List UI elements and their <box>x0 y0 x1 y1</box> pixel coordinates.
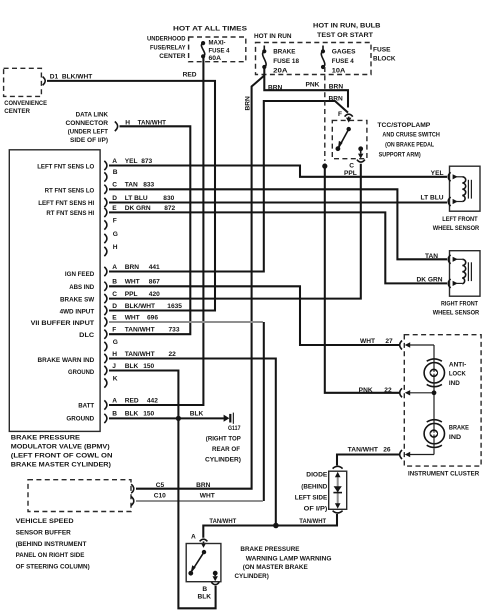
left front wheel sensor caption <box>433 216 480 232</box>
pin C PPL 420 labels <box>112 291 160 298</box>
pin J BLK 150 labels <box>112 363 154 370</box>
wire J BLK 150 riser down to ground run and brake switch <box>109 371 216 609</box>
svg-text:WHT: WHT <box>360 338 375 345</box>
svg-text:442: 442 <box>147 397 158 404</box>
svg-text:FUSE 4: FUSE 4 <box>332 58 354 65</box>
svg-text:DIODE: DIODE <box>306 471 328 478</box>
wire WHT 696 (gray run) <box>109 321 263 323</box>
svg-text:27: 27 <box>385 338 393 345</box>
svg-text:E: E <box>112 314 117 321</box>
wire TAN/WHT 26 from cluster to diode <box>337 455 400 466</box>
svg-text:ANTI-: ANTI- <box>449 361 466 368</box>
svg-text:BRN: BRN <box>329 84 344 91</box>
right front wheel sensor caption <box>433 301 480 317</box>
lamp ANTI-LOCK IND label <box>449 361 466 387</box>
wire label TAN <box>425 253 438 260</box>
wire label YEL <box>431 170 444 177</box>
pin F letter <box>113 217 117 224</box>
svg-text:B: B <box>202 586 207 593</box>
svg-text:BRAKE: BRAKE <box>449 425 470 432</box>
wire C10 WHT (gray run) <box>136 500 263 502</box>
diode connector arc bottom <box>333 511 343 513</box>
left front wheel sensor box <box>450 166 481 211</box>
svg-text:TAN/WHT: TAN/WHT <box>299 518 326 525</box>
svg-text:RIGHT FRONT: RIGHT FRONT <box>441 301 478 308</box>
wire label TAN/WHT 26 <box>348 447 391 454</box>
svg-text:BATT: BATT <box>78 403 94 410</box>
instrument cluster caption <box>408 471 479 478</box>
svg-text:BLK: BLK <box>198 593 212 600</box>
underhood fuse center dashed box <box>189 37 246 62</box>
svg-text:420: 420 <box>149 291 160 298</box>
BPMV module box <box>9 150 100 432</box>
svg-text:D1: D1 <box>50 73 59 80</box>
wire D1 BLK/WHT from convenience center to pin D (4WD INPUT) <box>47 73 215 310</box>
svg-text:BLK: BLK <box>125 363 139 370</box>
svg-text:696: 696 <box>147 314 158 321</box>
wire label BRN (right lower) <box>329 95 344 102</box>
pin K letter <box>113 375 118 382</box>
svg-text:INSTRUMENT CLUSTER: INSTRUMENT CLUSTER <box>408 471 479 478</box>
svg-text:SUPPORT ARM): SUPPORT ARM) <box>379 151 421 158</box>
svg-text:REAR OF: REAR OF <box>212 446 240 453</box>
wire YEL 873 to left front wheel sensor <box>109 166 447 177</box>
junction splice on PNK inside cluster <box>432 390 437 395</box>
fuse BRAKE FUSE 18 20A <box>262 46 299 75</box>
svg-text:GROUND: GROUND <box>68 369 94 376</box>
wire TAN/WHT 22 riser to bottom junction <box>109 359 276 525</box>
svg-text:BRN: BRN <box>125 264 140 271</box>
instrument cluster dashed box <box>404 335 481 466</box>
svg-text:OF STEERING COLUMN): OF STEERING COLUMN) <box>16 563 90 570</box>
svg-text:BRN: BRN <box>268 84 283 91</box>
svg-text:TAN: TAN <box>125 182 138 189</box>
wire PPL 420 from TCC switch pin C to BPMV pin C (BRAKE SW) <box>109 164 361 299</box>
svg-text:HOT IN RUN: HOT IN RUN <box>254 33 292 40</box>
svg-text:WHEEL SENSOR: WHEEL SENSOR <box>433 225 480 232</box>
VSS buffer caption <box>16 518 90 570</box>
junction splice TAN/WHT <box>273 523 279 529</box>
svg-text:FUSE: FUSE <box>373 47 391 54</box>
svg-text:FUSE 18: FUSE 18 <box>273 58 299 65</box>
svg-text:J: J <box>112 363 116 370</box>
RF sensor TAN connector arc and arrow <box>448 255 462 264</box>
svg-text:A: A <box>112 397 117 404</box>
wire label TAN/WHT (right) <box>299 518 326 525</box>
wire TAN 833 to right front wheel sensor <box>109 189 447 259</box>
RF sensor DK GRN connector arc and arrow <box>448 279 462 288</box>
diode symbol <box>333 486 342 492</box>
cluster connector arc and arrow (PNK 22) <box>400 388 434 397</box>
svg-text:RT FNT SENS LO: RT FNT SENS LO <box>45 187 94 194</box>
svg-text:WHT: WHT <box>125 314 140 321</box>
junction splice on PNK <box>322 164 327 169</box>
svg-text:TAN/WHT: TAN/WHT <box>125 327 155 334</box>
wire label PNK <box>306 81 320 88</box>
svg-text:150: 150 <box>143 363 154 370</box>
svg-text:1635: 1635 <box>167 303 182 310</box>
BPMV caption <box>11 435 113 469</box>
brake switch caption <box>235 546 332 580</box>
wire label BRN (right upper) <box>329 84 344 91</box>
svg-text:733: 733 <box>169 327 180 334</box>
LF sensor LT BLU connector arc and arrow <box>448 197 462 206</box>
diode internal wire and arrows <box>335 472 341 509</box>
svg-text:C: C <box>349 163 354 170</box>
svg-text:G: G <box>113 339 118 346</box>
pin E WHT 696 labels <box>112 314 158 321</box>
svg-text:YEL: YEL <box>125 158 138 165</box>
svg-text:CYLINDER): CYLINDER) <box>235 573 269 580</box>
svg-text:(BEHIND: (BEHIND <box>301 483 327 490</box>
svg-text:867: 867 <box>149 279 160 286</box>
svg-text:A: A <box>112 264 117 271</box>
fuse MAXI-FUSE 4 60A <box>201 40 230 63</box>
svg-text:BRAKE WARN IND: BRAKE WARN IND <box>38 357 95 364</box>
svg-text:LEFT FNT SENS HI: LEFT FNT SENS HI <box>38 200 94 207</box>
svg-text:DK GRN: DK GRN <box>125 205 151 212</box>
svg-text:D: D <box>112 303 117 310</box>
svg-text:(LEFT FRONT OF COWL ON: (LEFT FRONT OF COWL ON <box>11 453 113 460</box>
svg-text:AND CRUISE SWITCH: AND CRUISE SWITCH <box>382 132 440 139</box>
svg-text:LT BLU: LT BLU <box>125 195 148 202</box>
svg-text:MAXI-: MAXI- <box>209 40 226 47</box>
TCC switch label <box>377 122 440 159</box>
cluster internal wire vertical <box>433 345 435 455</box>
svg-text:MODULATOR VALVE (BPMV): MODULATOR VALVE (BPMV) <box>11 444 110 451</box>
pin C10 connector arc <box>131 497 134 506</box>
svg-text:F: F <box>113 217 117 224</box>
pin B letter <box>113 169 118 176</box>
pin B WHT 867 labels <box>112 279 160 286</box>
svg-text:441: 441 <box>149 264 160 271</box>
svg-text:TEST OR START: TEST OR START <box>317 32 373 39</box>
svg-text:833: 833 <box>143 182 154 189</box>
svg-text:22: 22 <box>384 387 392 394</box>
svg-text:873: 873 <box>141 158 152 165</box>
svg-text:RT FNT SENS HI: RT FNT SENS HI <box>46 210 94 217</box>
cluster connector arc and arrow (WHT 27) <box>400 341 434 350</box>
pin G letter <box>113 231 118 238</box>
svg-text:SIDE OF I/P): SIDE OF I/P) <box>70 137 108 144</box>
svg-text:FUSE/RELAY: FUSE/RELAY <box>150 44 186 51</box>
svg-text:CONVENIENCE: CONVENIENCE <box>4 100 47 107</box>
svg-text:BRN: BRN <box>196 482 211 489</box>
svg-text:10A: 10A <box>332 67 346 74</box>
svg-text:PANEL ON RIGHT SIDE: PANEL ON RIGHT SIDE <box>16 552 85 559</box>
svg-text:TAN/WHT: TAN/WHT <box>125 351 155 358</box>
svg-text:BRAKE PRESSURE: BRAKE PRESSURE <box>240 546 300 553</box>
node HOT AT ALL TIMES <box>173 26 248 33</box>
vehicle speed sensor buffer dashed box <box>28 480 131 512</box>
svg-text:BRAKE MASTER CYLINDER): BRAKE MASTER CYLINDER) <box>11 462 111 469</box>
pin C5 BRN labels <box>156 482 211 489</box>
pin C5 connector arc <box>131 484 134 493</box>
pin C10 WHT labels <box>154 492 215 499</box>
svg-text:LEFT FRONT: LEFT FRONT <box>442 216 477 223</box>
data link connector label <box>66 111 109 144</box>
pin D LT BLU 830 labels <box>112 195 174 202</box>
svg-text:C: C <box>112 291 117 298</box>
svg-text:150: 150 <box>143 411 154 418</box>
svg-text:ABS IND: ABS IND <box>69 284 94 291</box>
svg-text:872: 872 <box>164 205 175 212</box>
wire label DK GRN <box>416 277 442 284</box>
fuse block dashed box <box>256 43 396 75</box>
svg-text:HOT AT ALL TIMES: HOT AT ALL TIMES <box>173 26 248 33</box>
pin A YEL 873 labels <box>112 158 152 165</box>
wire RED vertical from maxi-fuse to BATT pin A <box>109 56 203 405</box>
svg-text:G: G <box>113 231 118 238</box>
svg-text:TAN/WHT: TAN/WHT <box>138 119 166 126</box>
svg-text:VII BUFFER INPUT: VII BUFFER INPUT <box>31 320 95 327</box>
svg-text:GAGES: GAGES <box>332 48 356 55</box>
wire PNK dashed from gages fuse <box>324 67 326 161</box>
wire label PNK 22 <box>359 387 392 394</box>
svg-text:BLK/WHT: BLK/WHT <box>62 73 92 80</box>
fuse GAGES FUSE 4 10A <box>321 46 356 75</box>
wire label WHT 27 <box>360 338 393 345</box>
svg-text:C10: C10 <box>154 492 166 499</box>
svg-text:LT BLU: LT BLU <box>421 195 444 202</box>
svg-text:G117: G117 <box>228 425 241 432</box>
wire label BRN rotated <box>244 96 251 111</box>
svg-text:LEFT FNT SENS LO: LEFT FNT SENS LO <box>37 164 94 171</box>
svg-text:H: H <box>112 351 117 358</box>
junction splice BLK 150 <box>176 416 181 421</box>
svg-text:BLK/WHT: BLK/WHT <box>125 303 155 310</box>
convenience center dashed box <box>4 68 48 115</box>
svg-text:YEL: YEL <box>431 170 444 177</box>
pin D1 connector arc <box>43 77 46 86</box>
svg-text:GROUND: GROUND <box>66 416 94 423</box>
svg-text:C5: C5 <box>156 482 165 489</box>
svg-text:WHEEL SENSOR: WHEEL SENSOR <box>433 310 480 317</box>
diode connector arc top <box>333 466 343 468</box>
BPMV internal pin labels <box>31 164 95 423</box>
wire WHT 696 riser down to C10 <box>263 322 265 501</box>
brake pressure warning lamp switch box <box>186 544 221 582</box>
svg-text:BLK: BLK <box>125 411 139 418</box>
LF sensor coil <box>462 177 471 202</box>
svg-text:CONNECTOR: CONNECTOR <box>66 120 109 127</box>
svg-text:BRAKE: BRAKE <box>273 48 296 55</box>
svg-text:D: D <box>112 195 117 202</box>
diode caption <box>295 471 328 512</box>
diode box <box>329 471 347 509</box>
svg-text:(ON BRAKE PEDAL: (ON BRAKE PEDAL <box>385 142 434 149</box>
svg-text:26: 26 <box>383 447 391 454</box>
svg-text:CYLINDER): CYLINDER) <box>205 456 241 463</box>
svg-text:A: A <box>191 534 196 541</box>
svg-text:K: K <box>113 375 118 382</box>
svg-text:20A: 20A <box>273 67 288 74</box>
underhood fuse/relay center label <box>147 36 186 61</box>
pin F of TCC switch: label, arc, arrow <box>338 111 353 123</box>
wire RED label <box>183 72 197 79</box>
svg-text:4WD INPUT: 4WD INPUT <box>60 309 95 316</box>
wire label BLK at ground <box>190 410 204 417</box>
wire BRN 441 riser and upper run to TCC switch <box>109 101 348 272</box>
BPMV connector 1 pin arcs A-H <box>104 161 107 256</box>
svg-text:B: B <box>112 411 117 418</box>
svg-text:E: E <box>112 205 117 212</box>
ground G117 caption <box>205 425 241 463</box>
svg-text:BRAKE SW: BRAKE SW <box>60 297 95 304</box>
cluster connector arc and arrow (TAN/WHT 26) <box>400 450 434 459</box>
svg-text:IND: IND <box>449 380 460 387</box>
svg-text:TAN: TAN <box>425 253 438 260</box>
wire TAN/WHT from diode to junction and brake switch <box>203 514 337 538</box>
svg-text:SENSOR BUFFER: SENSOR BUFFER <box>16 529 71 536</box>
TCC switch lever and contacts <box>336 127 351 151</box>
pin C TAN 833 labels <box>112 182 154 189</box>
lamp ANTI-LOCK IND <box>424 359 444 387</box>
svg-text:H: H <box>125 119 130 126</box>
svg-text:IND: IND <box>449 434 461 441</box>
lamp BRAKE IND <box>424 420 444 448</box>
TCC/stoplamp and cruise switch dashed box <box>332 120 367 158</box>
svg-text:HOT IN RUN, BULB: HOT IN RUN, BULB <box>313 22 381 29</box>
pin H TAN/WHT 22 labels <box>112 351 176 358</box>
wire DK GRN 872 to right front wheel sensor <box>109 212 447 283</box>
svg-text:B: B <box>112 279 117 286</box>
svg-text:UNDERHOOD: UNDERHOOD <box>147 36 186 43</box>
svg-text:C: C <box>112 182 117 189</box>
pin G letter <box>113 339 118 346</box>
pin A BRN 441 labels <box>112 264 160 271</box>
pin D BLK/WHT 1635 labels <box>112 303 182 310</box>
pin H connector arc of DLC <box>115 122 118 132</box>
svg-text:830: 830 <box>163 195 174 202</box>
svg-text:WHT: WHT <box>200 492 215 499</box>
BPMV connector 3 pin arcs A-B <box>104 400 107 423</box>
svg-text:BLK: BLK <box>190 410 204 417</box>
svg-text:LOCK: LOCK <box>449 371 466 378</box>
svg-text:PNK: PNK <box>359 387 373 394</box>
svg-text:DK GRN: DK GRN <box>416 277 442 284</box>
pin E DK GRN 872 labels <box>112 205 175 212</box>
svg-text:RED: RED <box>183 72 197 79</box>
svg-text:CENTER: CENTER <box>159 53 185 60</box>
pin A RED 442 labels <box>112 397 158 404</box>
node HOT IN RUN <box>254 33 292 40</box>
svg-text:22: 22 <box>169 351 177 358</box>
svg-text:A: A <box>112 158 117 165</box>
svg-text:DLC: DLC <box>79 332 94 339</box>
brake switch pin B: contact, arrow, arc <box>198 571 220 601</box>
svg-text:(UNDER LEFT: (UNDER LEFT <box>68 128 108 135</box>
svg-text:WHT: WHT <box>125 279 140 286</box>
svg-text:F: F <box>338 111 342 118</box>
wire label BRN (left) <box>268 84 283 91</box>
svg-text:TCC/STOPLAMP: TCC/STOPLAMP <box>377 122 431 129</box>
svg-text:LEFT SIDE: LEFT SIDE <box>295 495 328 502</box>
LF sensor YEL connector arc and arrow <box>448 172 462 181</box>
svg-text:H: H <box>113 244 118 251</box>
ground G117 symbol <box>224 413 234 424</box>
node HOT IN RUN, BULB TEST OR START <box>313 22 381 39</box>
brake switch lever and contacts <box>188 550 206 576</box>
svg-text:FUSE 4: FUSE 4 <box>209 48 230 55</box>
svg-text:PPL: PPL <box>125 291 138 298</box>
svg-text:F: F <box>112 327 116 334</box>
wire label LT BLU <box>421 195 444 202</box>
svg-text:BRAKE PRESSURE: BRAKE PRESSURE <box>11 435 81 442</box>
svg-text:OF I/P): OF I/P) <box>304 506 328 513</box>
pin C of TCC switch: contact, arrow, arc <box>344 146 365 176</box>
pin H letter <box>113 244 118 251</box>
wire label TAN/WHT (left) <box>209 518 236 525</box>
svg-text:(BEHIND INSTRUMENT: (BEHIND INSTRUMENT <box>16 541 87 548</box>
wire PNK solid down to instrument cluster <box>325 164 400 393</box>
right front wheel sensor box <box>450 251 481 297</box>
RF sensor coil <box>462 259 471 284</box>
svg-text:(ON MASTER BRAKE: (ON MASTER BRAKE <box>243 564 309 571</box>
svg-text:IGN FEED: IGN FEED <box>65 271 95 278</box>
svg-text:(RIGHT TOP: (RIGHT TOP <box>206 436 242 443</box>
svg-text:DATA LINK: DATA LINK <box>76 111 109 118</box>
svg-text:TAN/WHT: TAN/WHT <box>209 518 236 525</box>
wire B BLK 150 to G117 <box>109 417 224 419</box>
svg-text:BRN: BRN <box>329 95 344 102</box>
brake pressure warning lamp switch pin A: label, arc, arrow <box>191 534 207 548</box>
pin B BLK 150 labels <box>112 411 154 418</box>
svg-text:TAN/WHT: TAN/WHT <box>348 447 378 454</box>
svg-text:PNK: PNK <box>306 81 320 88</box>
svg-text:WARNING LAMP WARNING: WARNING LAMP WARNING <box>246 556 332 563</box>
wire H TAN/WHT from DLC to pin F (DLC) <box>109 119 190 334</box>
svg-text:60A: 60A <box>209 55 222 62</box>
svg-text:RED: RED <box>125 397 139 404</box>
svg-text:BRN: BRN <box>244 96 251 111</box>
svg-text:BLOCK: BLOCK <box>373 56 396 63</box>
svg-text:VEHICLE SPEED: VEHICLE SPEED <box>16 518 74 525</box>
wire BRN diagonal branch down to C5 of VSS buffer <box>136 76 264 489</box>
svg-text:CENTER: CENTER <box>4 108 30 115</box>
lamp BRAKE IND label <box>449 425 470 441</box>
wire LT BLU 830 to left front wheel sensor <box>109 201 447 203</box>
pin F TAN/WHT 733 labels <box>112 327 180 334</box>
svg-text:B: B <box>113 169 118 176</box>
wire BRN from brake fuse to TCC switch pin F <box>264 67 348 108</box>
BPMV connector 2 pin arcs A-K <box>104 267 107 388</box>
wire WHT 867 to instrument cluster WHT 27 <box>109 286 400 345</box>
